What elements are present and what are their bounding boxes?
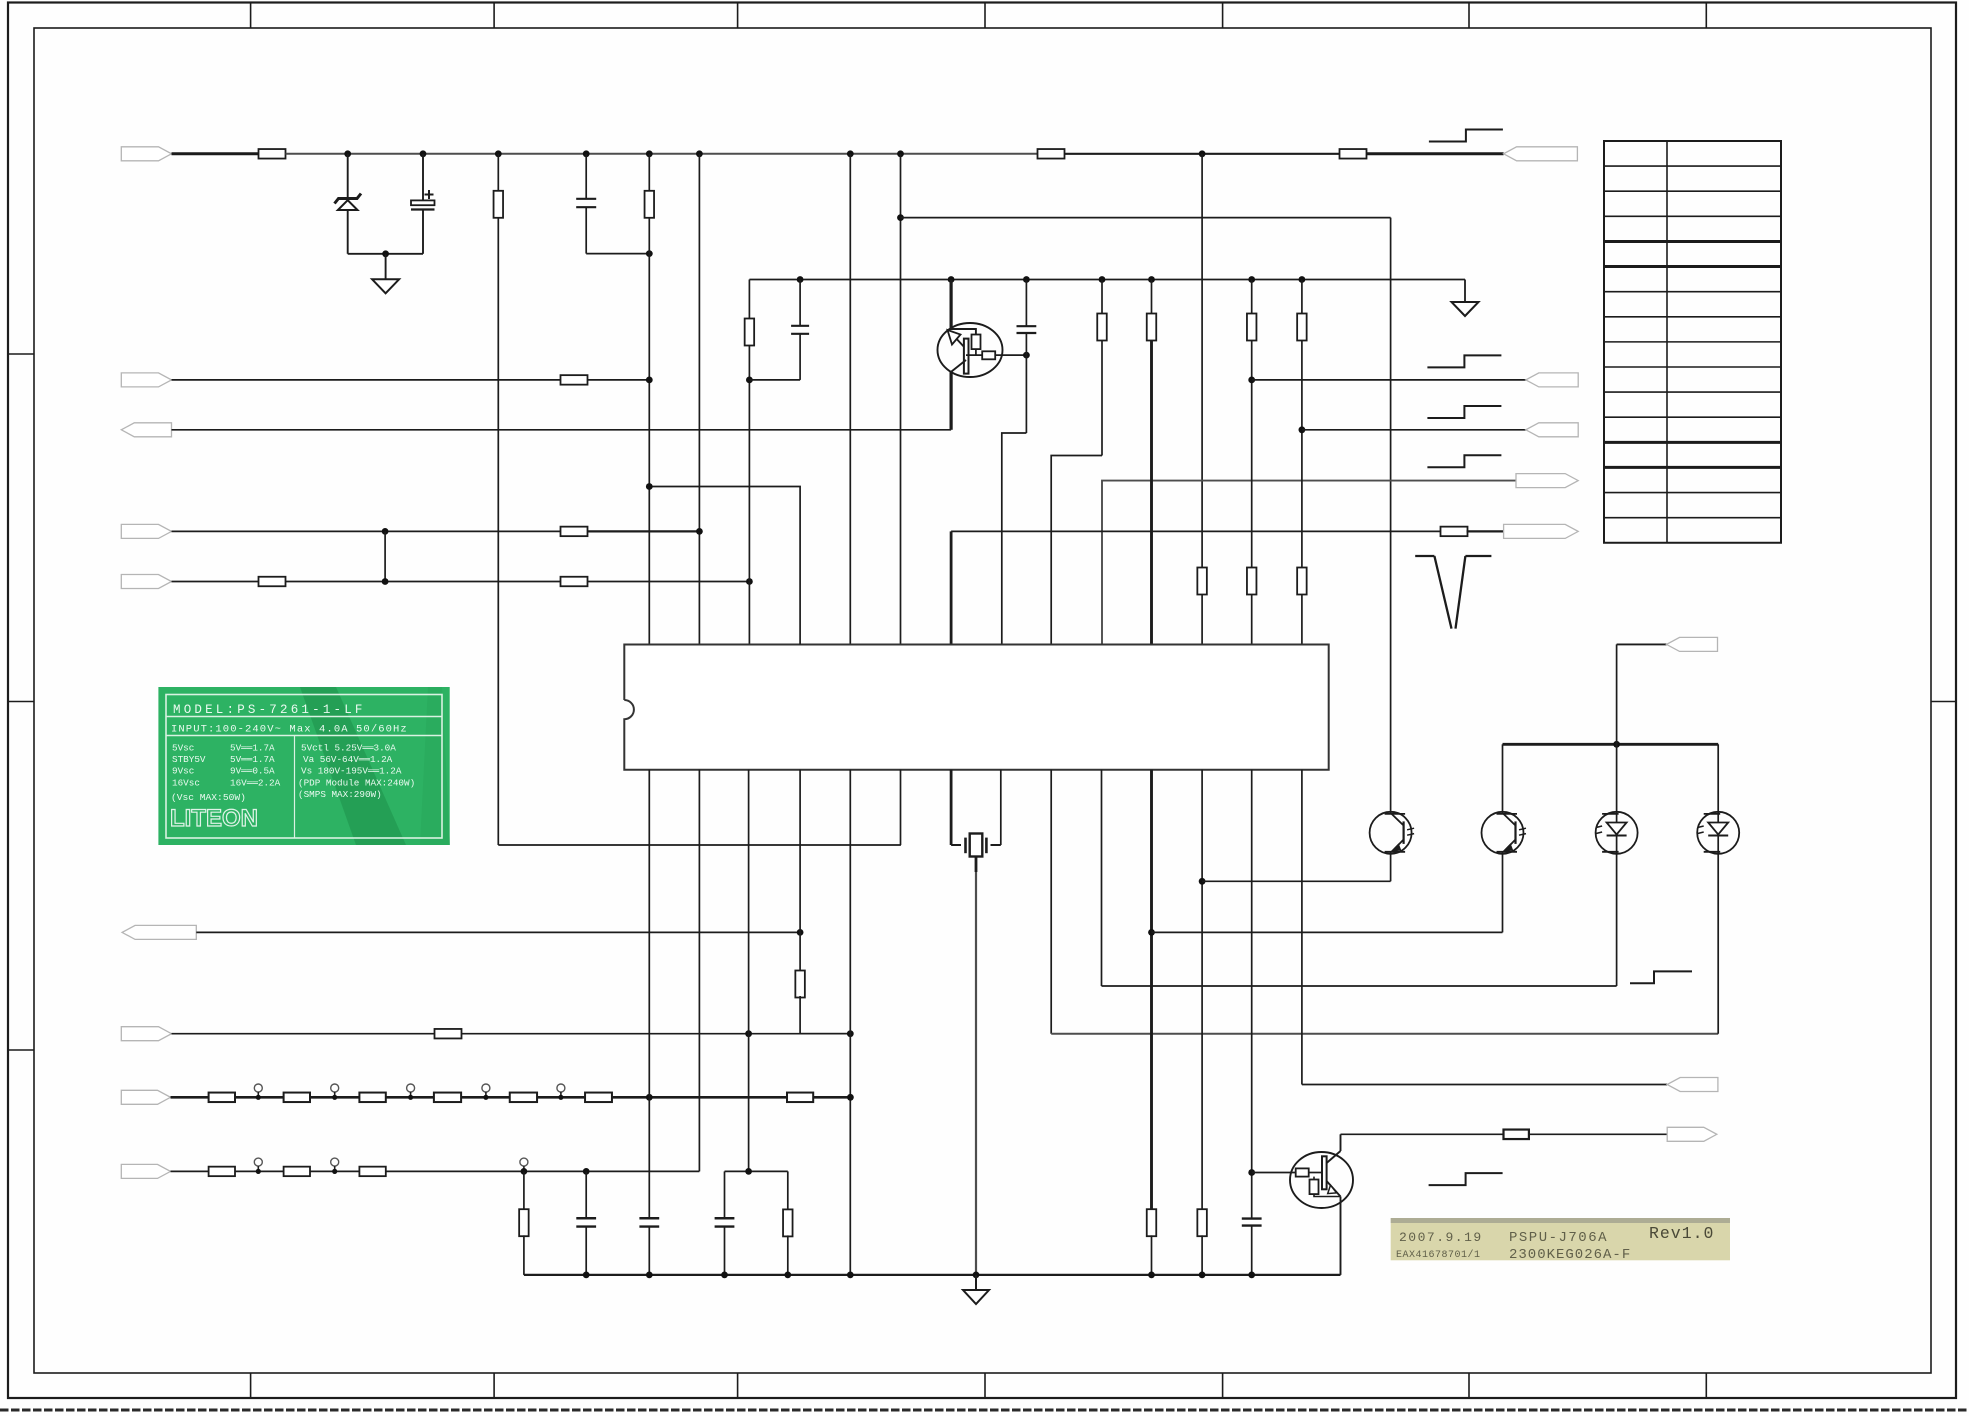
capacitor C7 [639, 1217, 659, 1219]
wire IC pin1151 to opto2 row thick [1150, 770, 1153, 1210]
svg-text:EAX41678701/1: EAX41678701/1 [1396, 1249, 1481, 1261]
wire V1026 jog to 1002 [1002, 433, 1027, 645]
bottom dashed revision line [0, 1409, 1969, 1412]
test pad TP8 [520, 1158, 528, 1166]
wire V1102 to jog [1101, 341, 1103, 456]
wire Q1 collector thick [949, 280, 952, 331]
wire rail A to ground right end [1464, 280, 1466, 303]
wire opto3 top [1616, 644, 1618, 814]
wire row932 [196, 931, 800, 933]
resistor R17 [1297, 568, 1307, 595]
wire row5 b [286, 581, 562, 583]
node V1252 Q2 base row [1248, 1169, 1255, 1176]
wire row3 long [172, 429, 952, 431]
wire V850 below IC [849, 770, 851, 1275]
node V1151 opto2 row [1148, 929, 1155, 936]
node bus junctions [344, 150, 351, 157]
svg-text:(PDP Module MAX:240W): (PDP Module MAX:240W) [298, 777, 415, 788]
wire row2 to V649 [588, 379, 650, 381]
wire opto2 top [1502, 744, 1504, 814]
zener diode D1 [347, 210, 349, 254]
node row5 at 385 [382, 578, 389, 585]
svg-text:MODEL:PS-7261-1-LF: MODEL:PS-7261-1-LF [173, 703, 366, 717]
node Q1 base on V1026 [1023, 352, 1030, 359]
wire ground stem [385, 254, 387, 279]
wire V523 to rail [523, 1235, 525, 1275]
wire V800 IC pin below [799, 770, 801, 972]
connector P17 right arrow out [1667, 1127, 1717, 1141]
wire V1301 to IC [1301, 594, 1303, 645]
wire bus to right connector thick [1366, 152, 1504, 155]
resistor R28 [585, 1093, 612, 1103]
wire V1151 to rail [1151, 1235, 1153, 1275]
wire V748 below IC [748, 770, 750, 1172]
connector P15 left arrow [121, 1090, 170, 1104]
wire V649 down to IC [648, 218, 650, 645]
wire opto3 bottom [1616, 852, 1618, 986]
svg-text:Va 56V-64V══1.2A: Va 56V-64V══1.2A [303, 754, 393, 765]
node row1034 V748 [745, 1030, 752, 1037]
wire opto4 bottom row [1051, 1033, 1718, 1035]
wire crystal row to pin900 [498, 844, 901, 846]
test pad TP1 [254, 1084, 262, 1092]
wire Q2 internal emitter link [1314, 1194, 1341, 1196]
wire crystal ground stem [975, 857, 978, 873]
resistor R32 [359, 1167, 385, 1177]
connector P9 right side arrow out [1516, 474, 1578, 488]
connector P10 right side arrow out [1504, 524, 1579, 538]
wire IC pin900 below [900, 770, 902, 845]
node row2 end [646, 377, 653, 384]
wire vertical net V900 bus to IC [900, 154, 902, 645]
wire Q2 collector up [1340, 1134, 1342, 1151]
wire IC pin1101 to opto3 row [1101, 770, 1103, 986]
wire row5 c [588, 581, 750, 583]
right border zone tick [1931, 701, 1956, 703]
wire V649 below IC [648, 770, 650, 1218]
wire bus middle segment [286, 153, 1038, 155]
node V1301 tap row430 [1299, 426, 1306, 433]
wire rail480 from right arrow [1102, 481, 1516, 645]
step waveform S6 [1429, 1173, 1503, 1185]
test pad TP5 [557, 1084, 565, 1092]
svg-text:5V══1.7A: 5V══1.7A [230, 754, 275, 765]
node ground join [382, 250, 389, 257]
resistor R23 [209, 1093, 235, 1103]
wire net to connector 5Vctl [1617, 643, 1667, 645]
resistor R7 [561, 375, 588, 385]
wire Q2 collector row [1341, 1133, 1504, 1135]
wire IC pin1252 down [1251, 770, 1253, 1219]
resistor R15 [1247, 568, 1257, 595]
green product label MODEL PS-7261-1-LF [158, 687, 450, 845]
svg-text:LITEON: LITEON [170, 805, 258, 832]
resistor R11 [745, 319, 755, 346]
resistor R24 [284, 1093, 310, 1103]
opto-coupler transistor at 1390.6 [1370, 812, 1412, 854]
wire anode rail thick [1503, 743, 1719, 746]
node tap on V900 [897, 214, 904, 221]
wire vertical net V498 [497, 154, 499, 191]
svg-text:(Vsc MAX:50W): (Vsc MAX:50W) [171, 792, 246, 803]
wire V1202 to rail [1201, 1235, 1203, 1275]
connector P16 left arrow [121, 1164, 170, 1178]
ground GND2 [1452, 302, 1479, 316]
resistor R13 [1147, 314, 1157, 341]
svg-text:Vs 180V-195V══1.2A: Vs 180V-195V══1.2A [301, 766, 402, 777]
wire IC pin800 upper link [649, 487, 800, 645]
resistor R6 on V1202 [1197, 568, 1207, 595]
resistor R31 [284, 1167, 310, 1177]
wire rail A left drop [748, 280, 750, 319]
resistor R3 on bus [1340, 149, 1367, 159]
node rail junctions [583, 1272, 590, 1279]
node anode rail at 1616 [1613, 741, 1620, 748]
ground GND3 [975, 1275, 977, 1290]
node row1097 V649 [646, 1094, 653, 1101]
node C2 join on V649 [646, 250, 653, 257]
connector P11 right arrow [1667, 1078, 1718, 1092]
test pad TP4 [482, 1084, 490, 1092]
wire V800 jog to V850 [800, 996, 850, 1034]
connector P4 left arrow out [121, 423, 171, 437]
transistor Q1 internals [951, 329, 976, 335]
resistor R1 on bus [259, 149, 286, 159]
resistor R26 [434, 1093, 461, 1103]
connector P12 right arrow [1667, 637, 1718, 651]
node V750 tap [746, 377, 753, 384]
node row1171 at 523 [521, 1168, 528, 1175]
wire vertical net V850 bus to IC [849, 154, 851, 645]
resistor R30 [209, 1167, 235, 1177]
transistor Q2 body [1290, 1152, 1353, 1208]
wire vertical net V699 bus to IC [698, 154, 700, 645]
resistor R5 [645, 191, 655, 218]
resistor R21 [795, 971, 805, 998]
svg-text:2300KEG026A-F: 2300KEG026A-F [1509, 1247, 1631, 1263]
step waveform S2 [1427, 355, 1501, 367]
node row5 end on V750 [746, 578, 753, 585]
capacitor C3 [799, 280, 801, 326]
resistor R12 [1097, 314, 1107, 341]
IC U1 main controller [624, 645, 1328, 770]
resistor R29 [787, 1093, 813, 1103]
node row1171 at 586 [583, 1168, 590, 1175]
test pad TP7 [331, 1158, 339, 1166]
wire Q1 collector branch thick to IC [950, 531, 953, 644]
resistor Q2 internal Rb [1296, 1168, 1309, 1176]
wire opto2 bottom row [1152, 931, 1503, 933]
resistor R16 [1297, 314, 1307, 341]
wire Q1 base line [966, 354, 982, 356]
connector P8 right side arrow [1526, 423, 1578, 437]
wire net row219 to right [901, 217, 1391, 219]
opto-coupler LED at 1718.2 [1697, 812, 1739, 854]
wire V787 down [787, 1171, 789, 1210]
resistor R10 [561, 577, 588, 587]
svg-text:9V══0.5A: 9V══0.5A [230, 766, 275, 777]
wire opto3 bottom row [1102, 985, 1617, 987]
wire V699 below IC [698, 770, 700, 1172]
test pad TP6 [254, 1158, 262, 1166]
capacitor C4 [1025, 280, 1027, 327]
wire Q1 emitter thick down [949, 372, 952, 430]
wire V1102 jog to 1051 [1051, 456, 1102, 645]
wire link 750-800 at y380 [749, 379, 800, 381]
wire V1251 down [1251, 341, 1253, 568]
wire row4 right segment [951, 530, 1441, 532]
wire row2 [172, 379, 562, 381]
resistor R9 [259, 577, 286, 587]
step waveform S3 [1427, 406, 1501, 418]
capacitor C1 electrolytic [422, 154, 424, 201]
transistor Q2 base bar [1322, 1156, 1327, 1189]
connector P2 right arrow [1504, 147, 1578, 161]
svg-text:Rev1.0: Rev1.0 [1649, 1224, 1714, 1243]
wire V787 to rail [787, 1235, 789, 1275]
wire Q2 base row [1252, 1172, 1296, 1174]
connector P3 left arrow [121, 373, 171, 387]
resistor R25 [359, 1093, 385, 1103]
wire row4-row5 link [384, 531, 386, 581]
wire V750 row380 to IC [748, 380, 750, 645]
wire rail A drop 1102 [1101, 280, 1103, 314]
opto-coupler transistor at 1502.5 [1482, 812, 1524, 854]
wire row4 to V699 [588, 530, 700, 532]
wire Q2 emitter down to rail [1340, 1197, 1342, 1275]
wire V523 down [523, 1171, 525, 1210]
svg-text:5Vctl 5.25V══3.0A: 5Vctl 5.25V══3.0A [301, 743, 396, 754]
svg-text:9Vsc: 9Vsc [172, 766, 194, 777]
yellow date label PSPU-J706A [1391, 1218, 1730, 1263]
resistor R8 [561, 527, 588, 537]
resistor R2 on bus [1038, 149, 1065, 159]
svg-text:5V══1.7A: 5V══1.7A [230, 743, 275, 754]
connector P14 left arrow [121, 1027, 171, 1041]
wire row430 right to arrow [1302, 429, 1526, 431]
svg-text:(SMPS MAX:290W): (SMPS MAX:290W) [298, 789, 382, 800]
node row4 at V385 branch [382, 528, 389, 535]
wire vertical net V649 [648, 154, 650, 191]
pin table grid [1604, 141, 1781, 543]
wire opto1 bottom [1390, 852, 1392, 882]
connector P7 right side arrow [1526, 373, 1578, 387]
wire bus right segment [1065, 153, 1341, 155]
step waveform S4 [1427, 455, 1501, 467]
node row1097 end V850 [847, 1094, 854, 1101]
wire R11 bottom to row380 node [748, 346, 750, 380]
wire row4 left [172, 530, 562, 532]
resistor R20 [1197, 1209, 1207, 1236]
capacitor C6 [585, 1171, 587, 1218]
connector P1 left arrow [121, 147, 171, 161]
svg-text:PSPU-J706A: PSPU-J706A [1509, 1230, 1608, 1246]
node link486 start [646, 483, 653, 490]
wire V1251 to IC [1251, 594, 1253, 645]
transistor Q1 body [938, 323, 1003, 377]
resistor Q1 internal Rb2 [982, 351, 995, 359]
wire crystal left pin thick [950, 770, 953, 845]
wire row1171 chain [171, 1170, 700, 1172]
wire V1301 down [1301, 341, 1303, 568]
wire C2 bottom [585, 207, 587, 253]
top border zone ticks [250, 3, 252, 29]
wire Q2 base to bar [1309, 1172, 1322, 1174]
svg-text:5Vsc: 5Vsc [172, 743, 194, 754]
svg-text:STBY5V: STBY5V [172, 754, 206, 765]
ground GND1 [372, 279, 399, 293]
svg-text:2007.9.19: 2007.9.19 [1399, 1230, 1483, 1245]
step waveform S5 [1630, 971, 1692, 983]
connector P5 left arrow [121, 524, 171, 538]
wire row380 right to arrow [1252, 379, 1526, 381]
node bridge V748 [745, 1168, 752, 1175]
wire rail A drop 1151 thick [1151, 280, 1153, 314]
wire rail A drop 1301 [1301, 280, 1303, 314]
test pad TP2 [331, 1084, 339, 1092]
wire C5 to rail [1251, 1226, 1253, 1275]
node row932 end on V800 [797, 929, 804, 936]
wire to arrow [1529, 1133, 1667, 1135]
svg-text:INPUT:100-240V~ Max 4.0A 50/60: INPUT:100-240V~ Max 4.0A 50/60Hz [171, 724, 408, 736]
wire row1085 to arrow [1302, 1084, 1667, 1086]
step waveform S1 [1429, 130, 1503, 142]
wire row1034 [172, 1033, 851, 1035]
wire net row219 drop at 1390 [1390, 218, 1392, 814]
test pad TP3 [407, 1084, 415, 1092]
resistor R19 [1147, 1209, 1157, 1236]
wire IC pin1051 to opto4 row [1050, 770, 1052, 1034]
wire vertical net V1202 bus to IC [1201, 154, 1203, 645]
resistor Q2 internal R2 [1310, 1180, 1319, 1195]
node row4 end on V699 [696, 528, 703, 535]
wire opto4 bottom [1717, 852, 1719, 1034]
resistor R22 [435, 1029, 462, 1039]
crystal X1 body [970, 834, 983, 857]
node V1202 opto1 row [1199, 878, 1206, 885]
connector P6 left arrow [121, 575, 171, 589]
wire row4 to arrow [1467, 530, 1504, 532]
wire bottom ground rail [524, 1274, 1341, 1276]
transistor Q2 collector diag [1327, 1151, 1341, 1163]
left border zone ticks [8, 353, 34, 355]
wire V498 down to crystal row [497, 218, 499, 845]
resistor R34 [783, 1209, 793, 1236]
wire bridge row1171 [725, 1170, 788, 1172]
capacitor C2 [585, 154, 587, 199]
svg-text:16V══2.2A: 16V══2.2A [230, 777, 281, 788]
bottom border zone ticks [250, 1373, 252, 1398]
wire row1097 chain thick [171, 1096, 851, 1099]
wire crystal right pin [991, 844, 1001, 846]
capacitor C8 [724, 1171, 726, 1218]
node V1251 tap row380 [1248, 377, 1255, 384]
resistor R35 [1504, 1130, 1529, 1140]
resistor R4 [494, 191, 504, 218]
capacitor C5 [1242, 1217, 1262, 1219]
wire IC pin1302 down [1301, 770, 1303, 1085]
wire Q1 base out [995, 354, 1026, 356]
wire opto1 bottom row [1202, 880, 1391, 882]
wire opto4 top [1717, 744, 1719, 814]
wire opto2 bottom [1502, 852, 1504, 933]
crevasse symbol [1415, 555, 1434, 557]
resistor Q1 internal Rb [972, 335, 981, 350]
wire rail A [749, 279, 1465, 281]
crystal X1 plates [964, 838, 967, 854]
connector P13 left arrow out [122, 925, 196, 939]
wire V1151 thick to IC [1150, 341, 1153, 645]
node rail A junctions [797, 276, 804, 283]
svg-text:16Vsc: 16Vsc [172, 777, 200, 788]
capacitor C1 electrolytic plus sign [425, 194, 434, 196]
wire IC pin1202 down [1201, 770, 1203, 1210]
resistor R18 [1441, 527, 1468, 537]
opto-coupler LED at 1616.6 [1596, 812, 1638, 854]
wire zener to ground join [348, 253, 423, 255]
wire row5 a [172, 581, 260, 583]
wire bus thick left segment [172, 152, 260, 155]
resistor R14 [1247, 314, 1257, 341]
wire rail A drop 1251 [1251, 280, 1253, 314]
node row1034 end [847, 1030, 854, 1037]
resistor R27 [510, 1093, 537, 1103]
resistor R33 [519, 1209, 529, 1236]
transistor Q2 emitter diag [1327, 1181, 1341, 1197]
wire zener stem [347, 154, 349, 198]
